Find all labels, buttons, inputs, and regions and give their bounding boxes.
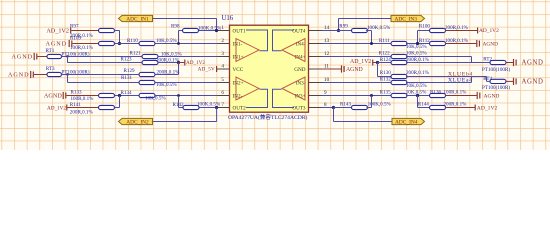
wire pin12 to R122: [322, 56, 393, 58]
resistor R133: [99, 93, 115, 97]
power port AD_5V (pin4): [198, 66, 230, 73]
junction C (T to R131 row): [66, 73, 68, 82]
wire node H down to R144: [418, 96, 431, 108]
svg-text:OPA4277UA(兼容TLC274ACDR): OPA4277UA(兼容TLC274ACDR): [228, 113, 307, 121]
junction dot node H: [416, 94, 419, 97]
svg-text:R100: R100: [419, 24, 430, 30]
junction dot OUT4/ADC_IN3: [337, 29, 340, 32]
wire R100 segment: [418, 31, 431, 44]
label R132: [380, 76, 391, 82]
value 100K,0.5% (R142): [197, 101, 221, 107]
svg-text:GND: GND: [294, 67, 305, 73]
wire R124 to RT2: [406, 62, 490, 64]
power port AGND (row RT3): [8, 71, 40, 79]
pin number 8: [324, 102, 327, 108]
svg-text:AGND: AGND: [484, 94, 500, 100]
pin 8 (OUT3) stub: [309, 107, 322, 109]
svg-text:PT100(100R): PT100(100R): [482, 66, 510, 73]
resistor R129: [139, 72, 155, 76]
pin number 11: [324, 64, 329, 70]
resistor R110: [139, 41, 155, 45]
svg-text:R141: R141: [70, 102, 81, 108]
pin 4 (VCC) stub: [218, 68, 230, 70]
svg-text:R110: R110: [127, 38, 138, 44]
junction F (T down to RT2 row): [471, 57, 473, 63]
resistor R98: [183, 28, 199, 32]
pin 14 (OUT4) stub: [309, 30, 322, 32]
pin number 12: [324, 51, 330, 57]
value 100R,0.1% (R112): [445, 38, 469, 44]
svg-text:IN1-: IN1-: [233, 41, 243, 47]
svg-text:OUT4: OUT4: [292, 28, 306, 34]
value PT100(100R) (RT3): [62, 69, 90, 76]
power port AD_1V2 (row R144): [445, 105, 497, 112]
svg-text:AGND: AGND: [522, 60, 544, 67]
junction G (T down to R132 row): [471, 77, 473, 83]
wire R124 row: [378, 62, 393, 64]
label R109: [70, 36, 81, 42]
op-amp C feedback loop: [273, 89, 295, 107]
wire pin10 to R132: [322, 82, 393, 84]
RTD RT4: [490, 79, 506, 83]
svg-text:ADC_IN1: ADC_IN1: [126, 16, 149, 22]
pin number 13: [324, 38, 330, 44]
power port AGND (row R112): [445, 40, 498, 47]
pin number 14: [324, 25, 330, 31]
svg-text:AGND: AGND: [12, 54, 33, 61]
junction dot R98 tap: [177, 42, 180, 45]
svg-text:ADC_IN3: ADC_IN3: [395, 16, 418, 22]
svg-text:AD_1V2: AD_1V2: [47, 105, 66, 111]
svg-text:OUT2: OUT2: [233, 105, 247, 111]
label R129: [124, 68, 135, 74]
wire R134 to pin6: [155, 95, 230, 97]
op-amp B triangle: [236, 77, 259, 100]
resistor R141: [99, 105, 115, 109]
resistor R99: [352, 28, 368, 32]
svg-text:IN2-: IN2-: [233, 93, 243, 99]
value 200R,0.1% (R124): [406, 57, 430, 63]
svg-text:AGND: AGND: [522, 78, 544, 85]
junction dot OUT2/ADC_IN2: [215, 106, 218, 109]
label R123: [121, 57, 132, 63]
wire RT1 to junction B: [62, 56, 68, 58]
resistor R135: [391, 93, 407, 97]
resistor R142: [183, 105, 199, 109]
svg-text:AGND: AGND: [8, 72, 29, 79]
svg-text:R144: R144: [418, 101, 429, 107]
pin number 4: [221, 64, 224, 70]
pin 6 (IN2-) stub: [218, 95, 230, 97]
label R97: [70, 23, 79, 29]
svg-text:AGND: AGND: [346, 67, 363, 73]
value 10K,0.5% (R135): [406, 90, 427, 96]
junction dot R99 tap: [370, 42, 373, 45]
value 200R,0.1% (R144): [444, 101, 468, 107]
pin number 2: [221, 38, 224, 44]
svg-text:U16: U16: [222, 15, 234, 22]
value 10K,0.5% (R122): [406, 51, 427, 57]
wire ADC_IN3 to OUT4 net: [339, 19, 392, 31]
svg-text:VCC: VCC: [233, 67, 244, 73]
wire R131 row: [68, 82, 140, 84]
svg-text:R111: R111: [379, 38, 390, 44]
label R130: [380, 70, 391, 76]
wire R98 segment: [179, 31, 230, 44]
resistor R112: [430, 41, 446, 45]
pin name VCC: [233, 67, 244, 73]
svg-text:R130: R130: [380, 70, 391, 76]
part value OPA4277UA(TLC274ACDR): [228, 113, 307, 121]
label R136: [430, 90, 441, 96]
power port AGND (row RT1): [12, 53, 40, 61]
wire pin8 to ADC_IN4 dot: [322, 107, 334, 109]
value 10K,0.5% (R110): [156, 38, 177, 44]
RTD RT2: [490, 60, 506, 64]
wire ADC_IN4 riser: [334, 108, 393, 122]
svg-text:OUT1: OUT1: [233, 28, 247, 34]
label R124: [380, 57, 391, 63]
svg-text:10K,0.5%: 10K,0.5%: [406, 83, 427, 89]
pin name IN4+: [295, 54, 306, 60]
RTD RT1: [40, 54, 62, 58]
wire pin13 to R111: [322, 43, 393, 45]
pin name IN2+: [233, 80, 244, 86]
port ADC_IN2: [119, 118, 153, 125]
junction dot AD_1V2 node right: [376, 61, 379, 64]
junction dot OUT3/ADC_IN4: [332, 106, 335, 109]
wire ADC_IN1 to OUT1 net: [153, 19, 217, 31]
pin 13 (IN4-) stub: [309, 43, 322, 45]
svg-text:AGND: AGND: [483, 41, 499, 47]
value 200R,0.1% (R97): [70, 33, 94, 39]
node A junction dot: [118, 42, 121, 45]
wire R141 to node D riser: [115, 107, 120, 109]
pin name IN4-: [296, 41, 306, 47]
op-amp U16 body: [230, 25, 309, 112]
junction dot R142 tap: [177, 94, 180, 97]
net label XLUEa4: [448, 78, 473, 84]
resistor R109: [99, 41, 115, 45]
resistor R100: [430, 28, 446, 32]
wire R135 to node H: [406, 95, 430, 97]
svg-text:R131: R131: [121, 75, 132, 81]
resistor R134: [139, 93, 155, 97]
wire R99 to IN4- tap: [366, 31, 372, 44]
RTD RT3: [40, 72, 62, 76]
svg-text:R98: R98: [171, 23, 180, 29]
value PT100(100R) (RT4): [482, 84, 510, 91]
svg-text:XLUEb4: XLUEb4: [448, 71, 473, 77]
net label XLUEb4: [448, 71, 473, 77]
power port AD_1V2 (row R100): [445, 28, 499, 35]
wire R142 segment: [179, 96, 230, 108]
svg-text:AD_1V2: AD_1V2: [186, 60, 205, 66]
port ADC_IN3: [391, 15, 425, 22]
svg-text:R132: R132: [380, 76, 391, 82]
pin 11 (GND) stub: [309, 68, 322, 70]
power port AGND (pin11): [322, 65, 363, 73]
svg-text:R99: R99: [339, 24, 348, 30]
pin number 3: [221, 51, 224, 57]
pin 7 (OUT2) stub: [218, 107, 230, 109]
value PT100(100R) (RT1): [62, 51, 90, 58]
wire pin9 to R135: [322, 95, 393, 97]
svg-text:R112: R112: [419, 38, 430, 44]
power port AD_1V2 (row R97): [46, 27, 98, 34]
pin 5 (IN2+) stub: [218, 82, 230, 84]
svg-text:10K,0.5%: 10K,0.5%: [406, 44, 427, 50]
label R99: [339, 24, 348, 30]
pin name IN3+: [295, 93, 306, 99]
label RT1: [46, 48, 55, 54]
wire R143 segment: [334, 107, 353, 109]
svg-text:R109: R109: [70, 36, 81, 42]
value 200R,0.1% (R130): [406, 70, 430, 76]
resistor R124: [391, 60, 407, 64]
resistor R122: [391, 54, 407, 58]
value 100R,0.1% (R136): [444, 90, 468, 96]
svg-text:AGND: AGND: [46, 41, 67, 48]
svg-text:2: 2: [221, 38, 224, 44]
svg-text:AD_1V2: AD_1V2: [46, 27, 69, 34]
value 10K,0.5% (R111): [406, 44, 427, 50]
label R111: [379, 38, 390, 44]
pin name IN1-: [233, 41, 243, 47]
resistor R130: [391, 74, 407, 78]
value 200R,0.1% (R123): [156, 58, 180, 64]
wire ADC_IN2 riser: [153, 108, 217, 122]
label R144: [418, 101, 429, 107]
power port AD_1V2 (mid): [179, 60, 206, 67]
label RT4: [483, 76, 492, 82]
wire R131 to pin5: [155, 82, 230, 84]
pin 3 (IN1+) stub: [218, 56, 230, 58]
power port AGND (RT4): [506, 78, 544, 86]
wire R132 to junction G: [406, 82, 472, 84]
value 100K,0.5% (R98): [198, 25, 222, 31]
power port AGND (row R109): [46, 40, 99, 48]
svg-text:R124: R124: [380, 57, 391, 63]
value 10K,0.5% (R131): [156, 82, 177, 88]
label R112: [419, 38, 430, 44]
value PT100(100R) (RT2): [482, 66, 510, 73]
svg-text:R143: R143: [340, 101, 351, 107]
pin name OUT2: [233, 105, 247, 111]
pin name GND: [294, 67, 305, 73]
svg-text:5: 5: [221, 77, 224, 83]
svg-text:R123: R123: [121, 57, 132, 63]
wire R122 to junction F: [406, 56, 472, 58]
label R121: [130, 50, 141, 56]
svg-text:PT100(100R): PT100(100R): [482, 84, 510, 91]
pin 12 (IN4+) stub: [309, 56, 322, 58]
pin number 5: [221, 77, 224, 83]
svg-text:AD_1V2: AD_1V2: [477, 105, 498, 111]
svg-text:R122: R122: [379, 51, 390, 57]
junction dot node E: [416, 42, 419, 45]
label U16: [222, 15, 234, 22]
svg-text:10K,0.5%: 10K,0.5%: [145, 96, 166, 102]
pin name OUT3: [292, 105, 306, 111]
svg-text:IN1+: IN1+: [233, 54, 244, 60]
pin number 7: [221, 102, 224, 108]
port ADC_IN4: [392, 118, 425, 125]
svg-text:4: 4: [221, 64, 224, 70]
label R131: [121, 75, 132, 81]
wire R110 to pin2: [155, 43, 230, 45]
svg-text:100R,0.1%: 100R,0.1%: [444, 90, 468, 96]
label R110: [127, 38, 138, 44]
wire node A to R110: [115, 43, 140, 45]
wire R111 to node E: [406, 43, 430, 45]
op-amp A feedback loop: [246, 30, 268, 51]
svg-text:RT1: RT1: [46, 48, 55, 54]
svg-text:R121: R121: [130, 50, 141, 56]
svg-text:7: 7: [221, 102, 224, 108]
resistor R97: [99, 28, 115, 32]
svg-text:3: 3: [221, 51, 224, 57]
op-amp D triangle: [282, 39, 305, 62]
op-amp C triangle: [282, 77, 305, 100]
svg-text:10K,0.5%: 10K,0.5%: [406, 51, 427, 57]
resistor R132: [391, 80, 407, 84]
resistor R111: [391, 41, 407, 45]
pin number 9: [324, 90, 327, 96]
svg-text:AD_5V: AD_5V: [198, 67, 215, 73]
junction dot AD_1V2 node: [177, 61, 180, 64]
svg-text:R133: R133: [71, 90, 82, 96]
svg-text:200R,0.1%: 200R,0.1%: [406, 70, 430, 76]
label R142: [173, 102, 184, 108]
value 100R,0.1% (R133): [71, 96, 95, 102]
port ADC_IN1: [119, 15, 153, 22]
pin 9 (IN3+) stub: [309, 95, 322, 97]
svg-text:ADC_IN4: ADC_IN4: [395, 119, 418, 125]
wire AD_1V2 node down to R130 row: [377, 63, 379, 77]
label RT2: [483, 57, 492, 63]
pin number 1: [221, 25, 224, 31]
svg-text:6: 6: [221, 90, 224, 96]
label R135: [380, 90, 391, 96]
junction dot OUT1/ADC_IN1: [215, 29, 218, 32]
value 100K,0.5% (R143): [368, 101, 392, 107]
label R133: [71, 90, 82, 96]
resistor R144: [430, 105, 446, 109]
power port AGND (row R133): [44, 92, 99, 100]
svg-text:100R,0.1%: 100R,0.1%: [70, 45, 94, 51]
value 200R,0.1% (R141): [70, 110, 94, 116]
wire R123 to AD_1V2 node: [158, 62, 179, 64]
label R98: [171, 23, 180, 29]
pin name IN1+: [233, 54, 244, 60]
pin number 6: [221, 90, 224, 96]
svg-text:R135: R135: [380, 90, 391, 96]
wire pin14 to R99: [322, 30, 354, 32]
power port AD_1V2 (row R141): [47, 105, 99, 112]
pin name OUT1: [233, 28, 247, 34]
svg-text:R134: R134: [121, 90, 132, 96]
value 200R,0.1% (R100): [445, 25, 469, 31]
wire R133 to R134: [115, 95, 140, 97]
wire junction C to R129: [68, 74, 140, 76]
wire R130 row: [378, 76, 393, 78]
pin name IN3-: [296, 80, 306, 86]
wire RT3 to junction C: [62, 74, 68, 76]
svg-text:RT3: RT3: [46, 66, 55, 72]
junction dot R143 tap: [370, 94, 373, 97]
junction B (T to R123 row): [66, 55, 68, 62]
pin number 10: [324, 77, 330, 83]
wire R129 to AD_1V2 drop: [155, 74, 179, 76]
svg-text:1: 1: [221, 25, 224, 31]
wire R123 row: [68, 62, 143, 64]
pin name OUT4: [292, 28, 306, 34]
resistor R143: [352, 105, 368, 109]
value 10K,0.5% (R134): [145, 96, 166, 102]
resistor R123: [142, 60, 158, 64]
svg-text:RT2: RT2: [483, 57, 492, 63]
power port AGND (RT2): [506, 59, 544, 67]
value 10K,0.5% (R121): [161, 51, 182, 57]
svg-text:AD_1V2: AD_1V2: [350, 59, 371, 65]
svg-text:OUT3: OUT3: [292, 105, 306, 111]
value 100K,0.5% (R99): [367, 25, 391, 31]
svg-text:IN3+: IN3+: [295, 93, 306, 99]
value 10K,0.5% (R132): [406, 83, 427, 89]
label R143: [340, 101, 351, 107]
wire R97 to node A: [115, 31, 120, 44]
label R100: [419, 24, 430, 30]
svg-text:IN2+: IN2+: [233, 80, 244, 86]
pin 10 (IN3-) stub: [309, 82, 322, 84]
svg-text:AGND: AGND: [44, 93, 62, 100]
label R122: [379, 51, 390, 57]
wire node D down to R141: [119, 96, 121, 108]
op-amp A triangle: [236, 39, 259, 62]
svg-text:ADC_IN2: ADC_IN2: [126, 119, 149, 125]
op-amp B feedback loop: [246, 89, 268, 107]
svg-text:RT4: RT4: [483, 76, 492, 82]
svg-text:R142: R142: [173, 102, 184, 108]
value 200R,0.1% (R129): [157, 69, 181, 75]
wire junction B to R121: [68, 56, 143, 58]
op-amp D feedback loop: [273, 30, 295, 51]
wire R143 to tap riser: [367, 96, 372, 108]
wire R121 to pin3: [158, 56, 230, 58]
label RT3: [46, 66, 55, 72]
pin 2 (IN1-) stub: [218, 43, 230, 45]
svg-text:AD_1V2: AD_1V2: [479, 28, 499, 34]
wire AD_1V2 node down to R129 row: [178, 63, 180, 75]
power port AD_1V2 (mid right): [350, 59, 377, 65]
label R134: [121, 90, 132, 96]
resistor R131: [139, 80, 155, 84]
svg-text:200R,0.1%: 200R,0.1%: [70, 110, 94, 116]
wire R130 to RT4 jog: [406, 77, 490, 82]
svg-text:R97: R97: [70, 23, 79, 29]
svg-text:R136: R136: [430, 90, 441, 96]
pin name IN2-: [233, 93, 243, 99]
power port AGND (row R136): [445, 92, 499, 100]
junction dot node D: [118, 94, 121, 97]
label R141: [70, 102, 81, 108]
pin 1 (OUT1) stub: [218, 30, 230, 32]
value 100R,0.1% (R109): [70, 45, 94, 51]
svg-text:200R,0.1%: 200R,0.1%: [444, 101, 468, 107]
resistor R121: [142, 54, 158, 58]
svg-text:R129: R129: [124, 68, 135, 74]
